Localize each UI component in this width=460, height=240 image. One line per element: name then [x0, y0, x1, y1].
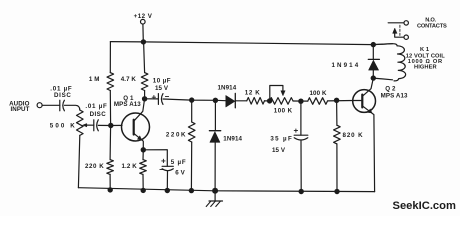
node 220K top	[189, 97, 194, 102]
wire signal line	[163, 99, 226, 101]
transistor Q2 MPS A13	[353, 78, 408, 191]
potentiometer 500K	[50, 110, 94, 188]
svg-text:INPUT: INPUT	[10, 106, 29, 113]
wire cap to base node	[98, 124, 110, 126]
svg-text:5 µF: 5 µF	[171, 159, 187, 166]
ground	[206, 191, 222, 207]
node detector junction	[213, 98, 218, 103]
svg-text:4.7 K: 4.7 K	[121, 76, 137, 83]
resistor R 220K load	[166, 100, 195, 191]
wire pot to 100K	[293, 100, 308, 102]
resistor R 1M	[89, 42, 114, 126]
diode 1N914 flyback	[332, 45, 380, 79]
wire base node to Q1	[111, 124, 122, 126]
node Q1 collector	[142, 96, 147, 101]
wire audio input	[42, 104, 60, 106]
capacitor C 35uF 15V	[270, 101, 307, 191]
wire cap to pot	[64, 105, 79, 110]
svg-text:220K: 220K	[166, 132, 187, 139]
svg-text:12 K: 12 K	[245, 89, 260, 96]
node coil bottom junction	[371, 75, 376, 80]
svg-text:1N914: 1N914	[332, 62, 361, 69]
capacitor C .01uF disc coupling	[85, 103, 107, 131]
resistor R 12K	[245, 89, 265, 104]
svg-text:Q 2: Q 2	[385, 85, 396, 92]
svg-text:15 V: 15 V	[155, 85, 169, 92]
svg-text:500 K: 500 K	[50, 123, 77, 130]
relay coil K1	[373, 44, 445, 81]
svg-text:1N914: 1N914	[218, 85, 237, 92]
svg-text:MPS A13: MPS A13	[381, 93, 408, 100]
power terminal +12V	[134, 13, 153, 42]
capacitor C .01uF disc input	[50, 86, 72, 111]
svg-text:1.2 K: 1.2 K	[122, 163, 138, 170]
svg-text:SeekIC.com: SeekIC.com	[393, 200, 456, 212]
node coil top junction	[371, 42, 376, 47]
resistor R 4.7K	[121, 42, 148, 99]
svg-text:35 µF: 35 µF	[270, 135, 293, 142]
svg-text:1N914: 1N914	[223, 135, 242, 142]
wire 100K to Q2 base	[328, 100, 353, 102]
svg-text:10 µF: 10 µF	[153, 78, 171, 85]
wire emitter to bypass cap	[143, 150, 167, 167]
svg-text:100 K: 100 K	[310, 90, 327, 97]
svg-text:.01 µF: .01 µF	[85, 103, 107, 110]
resistor R 820K	[334, 100, 364, 191]
diode 1N914 shunt	[209, 100, 242, 191]
wire top +12V supply rail	[110, 42, 373, 45]
node rail junction at 4.7K	[141, 39, 146, 44]
svg-text:+12 V: +12 V	[134, 13, 153, 20]
wire bottom ground rail	[78, 188, 374, 192]
svg-text:6 V: 6 V	[175, 169, 185, 176]
capacitor C 5uF 6V	[160, 159, 187, 191]
node Q2 base junction	[334, 98, 339, 103]
svg-text:MPS A13: MPS A13	[114, 101, 141, 108]
relay contacts N.O.	[388, 18, 447, 40]
node Q1 emitter	[141, 147, 146, 152]
svg-text:220 K: 220 K	[85, 163, 104, 170]
node 35uF top	[298, 99, 303, 104]
node rail junctions	[108, 187, 340, 194]
wire 12K to pot	[265, 100, 270, 102]
svg-text:15 V: 15 V	[272, 147, 286, 154]
svg-text:DISC: DISC	[90, 111, 107, 118]
transistor Q1 MPS A13	[114, 95, 150, 150]
resistor R 100K	[308, 90, 328, 104]
svg-text:100 K: 100 K	[274, 107, 293, 114]
svg-text:CONTACTS: CONTACTS	[417, 24, 447, 30]
wire diode to 12K	[235, 100, 247, 102]
wire collector to 10uF cap	[145, 98, 159, 100]
svg-text:1 M: 1 M	[89, 76, 100, 83]
svg-text:820 K: 820 K	[343, 132, 364, 139]
svg-text:K 1: K 1	[420, 47, 429, 53]
resistor R 1.2K emitter	[122, 150, 147, 191]
svg-text:N.O.: N.O.	[425, 18, 436, 24]
potentiometer 100K sensitivity	[267, 86, 293, 115]
svg-text:DISC: DISC	[54, 92, 72, 99]
svg-text:HIGHER: HIGHER	[414, 65, 437, 71]
audio input terminal	[9, 101, 42, 114]
diode 1N914 series	[218, 85, 237, 108]
capacitor C 10uF 15V coupling	[152, 78, 171, 105]
resistor R 220K bias	[85, 126, 113, 190]
node Q1 base junction	[108, 123, 113, 128]
